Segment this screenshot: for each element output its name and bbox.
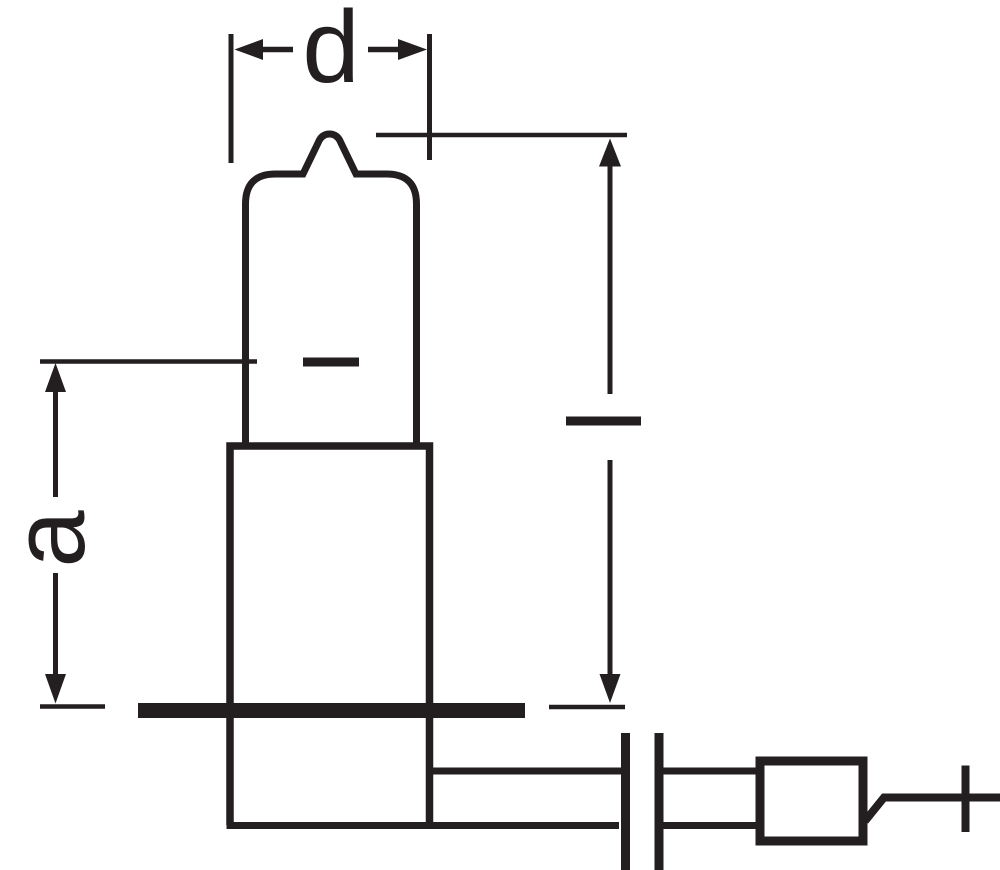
filament bar (303, 358, 359, 367)
dimension l: lower arrow line (608, 460, 613, 674)
dimension l: upper arrow line (608, 165, 613, 394)
lamp base bottom edge / cable lower lead (227, 822, 620, 829)
svg-text:d: d (302, 0, 359, 104)
cable lower lead right segment (663, 822, 760, 829)
cable break bar 1 (621, 733, 630, 870)
cable upper lead right segment (663, 768, 760, 775)
dimension d: left extension line (229, 34, 234, 163)
dimension a: upper arrow line (53, 390, 58, 497)
connector sleeve rectangle (760, 761, 863, 841)
terminal lead with kink (865, 798, 1000, 822)
dimension l: top extension line (376, 133, 627, 138)
terminal cross bar (962, 766, 970, 833)
dimension a: top extension line (40, 359, 257, 364)
dimension l: bottom tick (549, 705, 625, 710)
dimension a: bottom tick (40, 704, 105, 709)
lamp base (upper block) (230, 446, 430, 825)
dimension d: right arrow (368, 47, 398, 53)
cable upper lead (433, 768, 621, 775)
reference plane (thick line) (138, 703, 525, 718)
lamp glass envelope with exhaust tip (246, 134, 417, 446)
dimension d: left arrow (262, 47, 293, 53)
dimension d: right extension line (427, 34, 432, 160)
svg-text:a: a (0, 510, 106, 568)
dimension a: lower arrow line (53, 573, 58, 674)
cable break bar 2 (655, 733, 664, 870)
dimension l: label "l" (rotated bar) (566, 417, 641, 426)
